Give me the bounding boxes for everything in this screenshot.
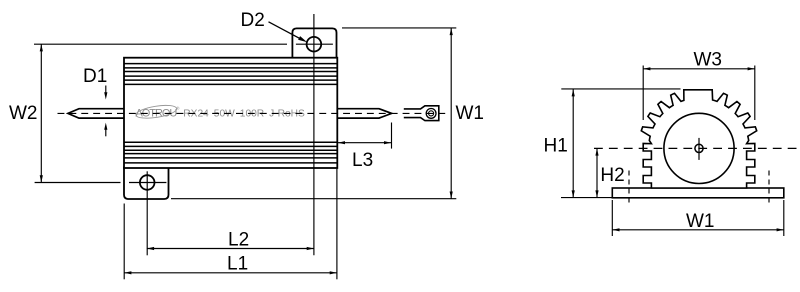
svg-text:L1: L1 <box>227 254 248 275</box>
svg-text:W3: W3 <box>694 49 723 70</box>
svg-text:RX24 50W 100R J-RoHS: RX24 50W 100R J-RoHS <box>183 109 305 120</box>
svg-text:H1: H1 <box>544 136 568 157</box>
svg-text:H2: H2 <box>600 165 624 186</box>
svg-text:D2: D2 <box>241 10 265 31</box>
svg-text:W1: W1 <box>456 103 485 124</box>
svg-text:L2: L2 <box>228 230 249 251</box>
svg-text:W2: W2 <box>9 103 38 124</box>
svg-text:L3: L3 <box>352 150 373 171</box>
svg-text:W1: W1 <box>686 211 715 232</box>
svg-text:D1: D1 <box>83 66 107 87</box>
